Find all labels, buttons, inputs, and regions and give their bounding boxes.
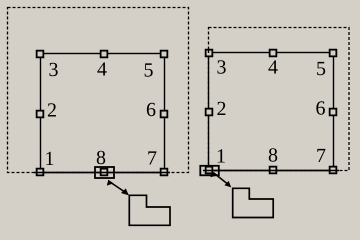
right handle 8 (bottom-middle) — [270, 167, 277, 174]
left digit 2 — [48, 103, 56, 116]
left square bottom edge overdraw — [34, 172, 170, 174]
left digit 3 — [49, 63, 57, 76]
right digit 5 — [317, 62, 325, 75]
right digit 8 — [269, 148, 277, 161]
right handle 2 (middle-left) — [206, 109, 213, 116]
right double arrow shaft — [214, 173, 230, 186]
right handle 6 (middle-right) — [330, 109, 337, 116]
right handle 3 (top-left) — [206, 50, 213, 57]
left dashed bounding rectangle — [8, 8, 189, 173]
right handle 5 (top-right) — [330, 50, 337, 57]
left step polygon — [129, 195, 170, 225]
left square — [41, 54, 165, 173]
right step polygon — [233, 188, 274, 217]
left handle 7 (bottom-right) — [161, 169, 168, 176]
left arrowhead upper — [107, 180, 114, 186]
right digit 7 — [317, 149, 325, 162]
right digit 2 — [217, 102, 225, 115]
left handle 1 (bottom-left) — [37, 169, 44, 176]
right handle 4 (top-middle) — [270, 50, 277, 57]
left handle 2 (middle-left) — [37, 111, 44, 118]
left digit 5 — [145, 63, 153, 76]
right square top-left handle stub — [208, 49, 210, 53]
left arrowhead lower — [121, 189, 129, 196]
left handle 5 (top-right) — [161, 51, 168, 58]
left digit 7 — [148, 151, 156, 164]
right digit 3 — [217, 60, 225, 73]
right handle 7 (bottom-right) — [330, 167, 337, 174]
left digit 4 — [97, 62, 106, 75]
right digit 4 — [268, 60, 277, 73]
left digit 6 — [147, 103, 156, 116]
left digit 8 — [97, 151, 105, 164]
right arrowhead lower — [224, 181, 231, 188]
right handle 1 (bottom-left) — [206, 167, 213, 174]
right selection box around handle 1 — [200, 166, 219, 176]
right arrowhead upper — [210, 171, 218, 177]
left handle 3 (top-left) — [37, 51, 44, 58]
left handle 8 (bottom-middle) — [101, 169, 108, 176]
left handle 6 (middle-right) — [161, 111, 168, 118]
right square — [209, 53, 334, 171]
left double arrow shaft — [110, 182, 127, 194]
right digit 1 — [218, 149, 225, 162]
right digit 6 — [316, 101, 325, 114]
left digit 1 — [46, 152, 53, 165]
right square bottom edge overdraw — [203, 170, 339, 172]
right dashed bounding rectangle — [209, 28, 350, 171]
left handle 4 (top-middle) — [101, 51, 108, 58]
left selection box around handle 8 — [95, 167, 114, 178]
